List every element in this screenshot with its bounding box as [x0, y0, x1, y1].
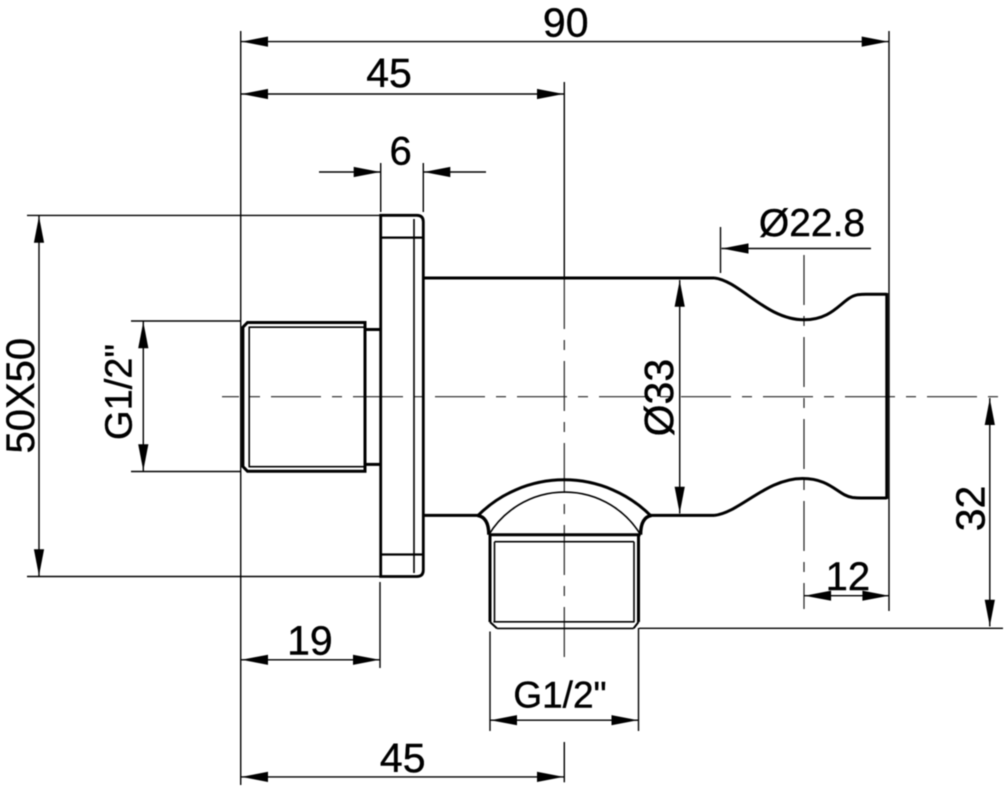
svg-text:45: 45	[380, 735, 426, 781]
svg-text:50X50: 50X50	[0, 338, 43, 454]
svg-text:6: 6	[389, 130, 411, 174]
svg-text:45: 45	[366, 50, 412, 96]
svg-text:12: 12	[826, 555, 871, 599]
svg-text:90: 90	[543, 0, 589, 46]
svg-text:19: 19	[287, 618, 333, 664]
svg-text:Ø22.8: Ø22.8	[759, 202, 865, 245]
svg-text:G1/2": G1/2"	[99, 344, 141, 440]
svg-text:32: 32	[948, 486, 994, 532]
svg-text:G1/2": G1/2"	[513, 675, 606, 716]
svg-text:Ø33: Ø33	[636, 359, 682, 437]
